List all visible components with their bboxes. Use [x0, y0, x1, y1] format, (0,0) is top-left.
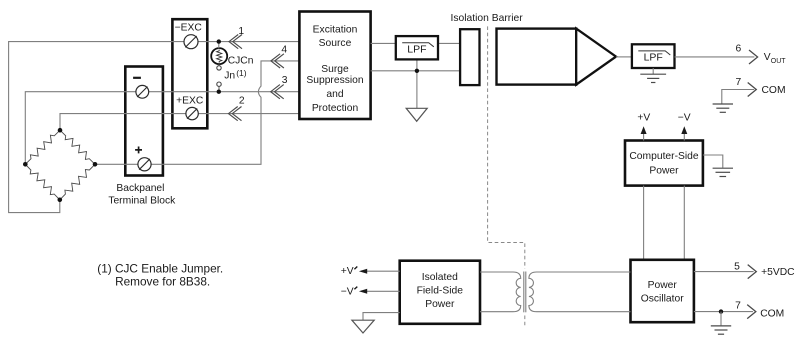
isolation barrier bar [460, 29, 479, 85]
wire amplifier to LPF2 [616, 56, 632, 58]
wire +V' arrow [361, 270, 400, 272]
wire jumper lower pin to pin3 wire [218, 86, 220, 91]
svg-text:Field-Side: Field-Side [417, 286, 464, 297]
screw terminal -EXC [184, 35, 198, 49]
svg-text:OUT: OUT [771, 58, 787, 65]
field-side ground (triangle) power [352, 320, 374, 333]
junction dot jumper on pin3 wire [217, 90, 221, 94]
svg-text:+5VDC: +5VDC [761, 267, 795, 278]
svg-text:+EXC: +EXC [176, 96, 204, 107]
svg-text:5: 5 [734, 261, 740, 272]
svg-text:−V: −V [341, 286, 354, 297]
isolation amplifier block [497, 29, 577, 85]
CJC sensor CJCn [211, 48, 227, 64]
svg-text:Remove for 8B38.: Remove for 8B38. [115, 274, 210, 288]
svg-text:+V: +V [341, 266, 354, 277]
earth ground COM [713, 103, 733, 105]
wire +5VDC [694, 271, 754, 273]
svg-text:Power: Power [425, 299, 455, 310]
earth ground oscillator COM [711, 325, 731, 327]
transformer core [523, 272, 525, 313]
svg-text:−V: −V [678, 113, 691, 124]
svg-text:Backpanel: Backpanel [116, 183, 164, 194]
wire LPF2 to earth ground [652, 68, 654, 74]
field-side ground (triangle) under LPF1 [406, 108, 427, 121]
bridge resistor bottom-left [25, 164, 60, 200]
arrow pin 7 bottom [747, 305, 756, 319]
svg-text:Terminal Block: Terminal Block [108, 196, 176, 207]
svg-text:Isolation Barrier: Isolation Barrier [451, 13, 524, 24]
svg-text:LPF: LPF [407, 44, 426, 56]
wire excitation return to barrier [371, 70, 461, 72]
svg-text:V: V [764, 52, 771, 63]
svg-text:Suppression: Suppression [306, 75, 364, 86]
svg-text:Isolated: Isolated [422, 272, 458, 283]
arrow pin 4 [271, 54, 284, 68]
bridge resistor bottom-right [60, 164, 95, 200]
svg-text:Excitation: Excitation [313, 24, 358, 35]
transformer secondary winding [529, 272, 631, 312]
isolated field-side power block [400, 261, 480, 324]
wire computer-side to oscillator left [643, 186, 645, 260]
bridge node right [93, 162, 98, 167]
EXC terminal block [172, 19, 207, 128]
bridge node top [58, 128, 63, 133]
svg-text:Power: Power [649, 165, 679, 176]
svg-text:COM: COM [760, 308, 784, 319]
svg-text:and: and [326, 89, 343, 100]
earth ground computer-side [713, 167, 733, 169]
svg-text:6: 6 [736, 44, 742, 55]
svg-text:2: 2 [239, 95, 245, 106]
wire pin2 to +EXC and bridge top [60, 114, 299, 131]
power oscillator block [631, 260, 694, 322]
svg-text:3: 3 [282, 75, 288, 86]
svg-text:Power: Power [648, 280, 678, 291]
bridge node bottom [58, 198, 63, 203]
svg-text:Protection: Protection [312, 103, 359, 114]
svg-text:CJCn: CJCn [228, 55, 254, 66]
arrow pin 6 [749, 50, 758, 64]
wire excitation to LPF1 [371, 42, 396, 44]
low-pass filter LPF2 [632, 44, 675, 68]
svg-text:Oscillator: Oscillator [641, 293, 684, 304]
junction dot LPF1 ground [415, 69, 419, 73]
wire pin4 to + terminal and bridge right (hop over pin3 wire) [95, 61, 299, 164]
screw terminal - (backpanel) [136, 85, 149, 98]
arrow pin 5 [748, 265, 757, 279]
jumper Jn pin upper [217, 66, 221, 70]
wire COM pin 7 [722, 90, 754, 104]
wire +V arrow [643, 131, 645, 141]
label + (backpanel) [135, 147, 142, 154]
svg-text:1: 1 [238, 26, 244, 37]
backpanel terminal block [125, 67, 163, 176]
label - (backpanel) [133, 77, 141, 79]
svg-text:LPF: LPF [644, 51, 663, 63]
wire LPF2 to VOUT [675, 56, 755, 58]
junction dot CJC on pin1 wire [217, 39, 221, 43]
transformer primary winding [480, 272, 521, 312]
bridge resistor top-left [25, 130, 60, 164]
arrow pin 3 [271, 85, 284, 99]
wire LPF1 to isolation barrier [438, 42, 460, 44]
wire COM pin 7 bottom [694, 311, 753, 313]
svg-text:4: 4 [281, 44, 287, 55]
svg-text:Computer-Side: Computer-Side [629, 151, 699, 162]
amplifier triangle [576, 29, 616, 85]
excitation source block [299, 12, 370, 120]
svg-text:COM: COM [762, 85, 786, 96]
wire computer-side power to ground [703, 155, 723, 168]
svg-text:7: 7 [736, 77, 742, 88]
wire computer-side to oscillator right [683, 186, 685, 260]
wire -V' arrow [361, 290, 400, 292]
arrow pin 7 [748, 83, 757, 97]
jumper Jn pin lower [217, 82, 221, 86]
bridge node left [23, 162, 28, 167]
svg-text:(1) CJC Enable Jumper.: (1) CJC Enable Jumper. [97, 261, 223, 275]
arrow pin 1 [229, 35, 242, 49]
earth ground under LPF2 [640, 73, 666, 75]
computer-side power block [625, 141, 703, 186]
isolation barrier dashed line [488, 26, 525, 327]
svg-text:−EXC: −EXC [175, 22, 203, 33]
svg-text:(1): (1) [236, 68, 247, 78]
wire -V arrow [683, 131, 685, 141]
low-pass filter LPF1 [396, 36, 438, 59]
wire pin3 to - terminal and bridge left [25, 92, 299, 165]
bridge resistor top-right [60, 130, 95, 164]
wire LPF1 bottom to junction [416, 59, 418, 70]
wire pin1 to -EXC and bridge bottom loop [9, 42, 300, 213]
svg-text:Source: Source [319, 38, 352, 49]
junction dot COM ground [719, 309, 723, 313]
svg-text:+V: +V [637, 113, 650, 124]
screw terminal +EXC [186, 107, 198, 119]
arrow pin 2 [229, 107, 242, 121]
screw terminal + (backpanel) [138, 158, 151, 171]
svg-text:Jn: Jn [224, 71, 235, 82]
svg-text:Surge: Surge [321, 64, 349, 75]
wire junction to field ground [416, 71, 418, 109]
svg-text:7: 7 [735, 300, 741, 311]
wire COM to ground [720, 312, 722, 326]
wire field-side power to triangle ground [363, 313, 400, 321]
